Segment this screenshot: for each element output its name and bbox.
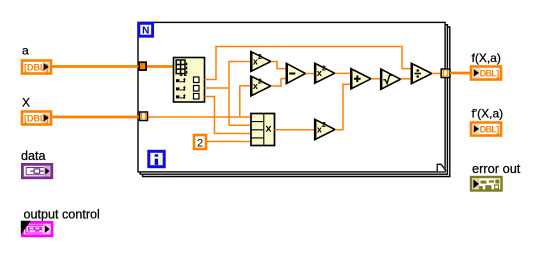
- x2 upper: [251, 52, 271, 72]
- x2 mid: [315, 63, 335, 83]
- i terminal: [149, 151, 164, 166]
- subtract node: [286, 63, 305, 83]
- svg-text:2: 2: [322, 122, 326, 129]
- loop corner fold: [437, 164, 447, 172]
- control data refnum: [22, 164, 51, 177]
- wire a: [51, 65, 173, 68]
- control output control cluster: [21, 221, 52, 236]
- svg-text:f'(X,a): f'(X,a): [472, 107, 504, 121]
- constant 2: [194, 135, 206, 149]
- wire row3 to multiply: [205, 97, 252, 134]
- x2 bottom: [315, 119, 335, 139]
- tunnel out (indexing): [441, 69, 450, 78]
- triangle left-edge bars: [251, 52, 411, 140]
- index array node: [174, 58, 205, 103]
- tunnel X (indexing): [140, 112, 148, 121]
- svg-text:2: 2: [322, 66, 326, 73]
- wire subtract to x2 mid: [306, 73, 315, 75]
- svg-text:error out: error out: [472, 161, 521, 176]
- wire x2 lower to subtract: [271, 79, 286, 86]
- sqrt node: [381, 69, 401, 89]
- compound multiply node: [251, 114, 275, 146]
- wire row1 to divide top: [205, 47, 412, 80]
- svg-text:a: a: [22, 44, 29, 58]
- wire divide to tunnel: [432, 72, 441, 74]
- divide node: [411, 63, 432, 83]
- svg-text:f(X,a): f(X,a): [472, 51, 501, 65]
- indicator error out: [471, 177, 502, 191]
- wire row2 to x2 upper and multiply: [205, 62, 252, 126]
- svg-text:N: N: [142, 25, 149, 36]
- wire 2 to multiply: [206, 141, 251, 143]
- wire x2 mid to add: [335, 72, 351, 74]
- wire multiply to x2 bottom: [275, 129, 315, 131]
- wire tunnel to f(X,a): [450, 72, 470, 75]
- control X [DBL]: [22, 112, 51, 125]
- indicator f(X,a): [471, 67, 501, 80]
- svg-text:2: 2: [197, 137, 203, 149]
- wire x2 upper to subtract: [271, 62, 286, 69]
- control a [DBL]: [22, 61, 51, 74]
- for-loop frame: [138, 22, 450, 176]
- indicator f'(X,a): [471, 123, 501, 136]
- N terminal: [139, 23, 153, 36]
- svg-text:data: data: [21, 149, 46, 163]
- svg-text:2: 2: [258, 54, 262, 61]
- wire sqrt to divide: [401, 78, 412, 80]
- wire X branch to x2 lower: [240, 86, 250, 117]
- svg-text:DBL]: DBL]: [480, 124, 500, 134]
- x2 lower: [251, 76, 271, 96]
- svg-text:DBL]: DBL]: [480, 68, 500, 78]
- wire X: [51, 116, 140, 119]
- wire x2 bottom to add: [335, 84, 351, 129]
- svg-text:output control: output control: [24, 207, 100, 221]
- wire add to sqrt: [371, 78, 381, 80]
- add node: [351, 69, 371, 89]
- svg-text:X: X: [22, 96, 30, 110]
- tunnel a (solid): [139, 62, 146, 70]
- svg-text:2: 2: [258, 78, 262, 85]
